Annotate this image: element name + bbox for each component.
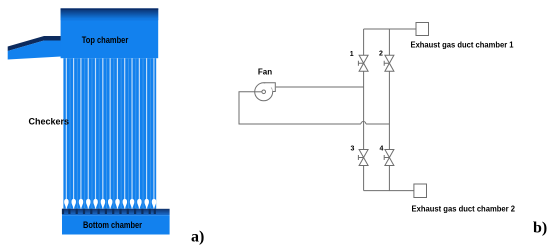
top chamber xyxy=(61,8,159,58)
checkers stack xyxy=(63,58,156,209)
bottom chamber header band xyxy=(62,209,170,215)
valve 4 xyxy=(384,150,394,166)
svg-text:4: 4 xyxy=(380,146,384,153)
exhaust chamber 1 box xyxy=(416,23,429,36)
svg-text:Exhaust gas duct chamber 1: Exhaust gas duct chamber 1 xyxy=(411,41,515,50)
valve 2 xyxy=(384,55,394,71)
wire bus 1 middle xyxy=(363,71,365,149)
svg-text:1: 1 xyxy=(350,51,354,58)
svg-text:Top chamber: Top chamber xyxy=(82,35,129,45)
checker nozzle tips xyxy=(64,199,156,209)
wire to valve bus 2 xyxy=(366,123,390,125)
wire hop over bus xyxy=(361,122,366,124)
wire bus 2 lower xyxy=(388,166,390,191)
svg-text:Checkers: Checkers xyxy=(29,117,70,127)
svg-text:Bottom chamber: Bottom chamber xyxy=(83,220,142,230)
svg-text:b): b) xyxy=(533,220,547,237)
svg-text:a): a) xyxy=(191,229,204,246)
fan F1 xyxy=(255,82,276,101)
wire bus 1 lower xyxy=(363,166,365,191)
wire fan outlet xyxy=(275,86,363,88)
inlet duct front face xyxy=(8,41,61,60)
wire bus 2 upper xyxy=(388,29,390,55)
svg-text:Exhaust gas duct chamber 2: Exhaust gas duct chamber 2 xyxy=(412,205,516,214)
valve 3 xyxy=(358,150,368,166)
wire bottom header xyxy=(364,190,414,192)
wire fan inlet loop xyxy=(239,92,361,124)
exhaust chamber 2 box xyxy=(414,184,427,198)
svg-text:3: 3 xyxy=(351,146,355,153)
bottom chamber xyxy=(62,215,170,234)
wire bus 1 upper xyxy=(363,29,365,55)
wire top header xyxy=(364,28,416,30)
inlet duct top face xyxy=(8,36,61,51)
svg-text:Fan: Fan xyxy=(258,68,272,77)
valve 1 xyxy=(358,55,368,71)
svg-text:2: 2 xyxy=(379,51,383,58)
wire bus 2 middle xyxy=(388,71,390,149)
